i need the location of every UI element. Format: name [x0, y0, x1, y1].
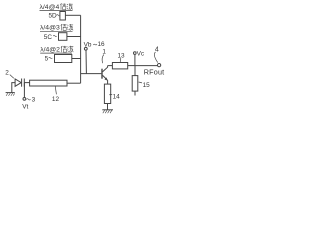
varactor diode 2: [15, 79, 24, 87]
svg-text:13: 13: [118, 52, 126, 59]
wire collector to choke 13: [108, 65, 113, 67]
svg-text:5D: 5D: [49, 13, 58, 20]
svg-text:RFout: RFout: [144, 68, 165, 77]
value label lambda/4 at 3rd harmonic (underlined): [40, 24, 73, 32]
svg-text:λ/4@4: λ/4@4: [40, 4, 60, 11]
stub 5C label: [44, 34, 57, 41]
wire choke 13 to supply node: [128, 65, 135, 67]
svg-text:Vc: Vc: [137, 50, 145, 57]
svg-text:5C: 5C: [44, 34, 53, 41]
bus wire (stubs common node): [80, 15, 82, 83]
wire line 12 to bus bottom: [67, 82, 81, 84]
svg-text:15: 15: [143, 82, 151, 89]
stub 5D label: [49, 13, 61, 20]
terminal Vc (collector supply): [134, 50, 145, 57]
wire stub 5 to bus: [72, 58, 81, 60]
svg-text:12: 12: [52, 96, 60, 103]
base wire (node to transistor base): [81, 73, 102, 75]
wire varactor cathode to line 12: [24, 82, 29, 84]
choke 13: [112, 63, 127, 69]
ground (varactor anode): [6, 93, 15, 96]
wire Vb to base node: [85, 50, 87, 73]
svg-text:2: 2: [5, 70, 9, 77]
svg-text:5: 5: [45, 55, 49, 62]
wire stub 5D to bus: [65, 14, 80, 16]
node 3 branch wire to Vt terminal: [23, 83, 25, 98]
label 12 with leader: [52, 86, 60, 103]
terminal Vb (base bias): [84, 42, 92, 51]
resistor 15: [132, 76, 138, 92]
label 3 with leader: [27, 97, 36, 104]
value label lambda/4 at 4th harmonic (underlined): [40, 3, 73, 11]
value label lambda/4 at 2nd harmonic (underlined): [40, 46, 73, 54]
resonator line 12 (half-wave strip): [30, 80, 67, 86]
svg-text:Vt: Vt: [22, 104, 28, 111]
svg-text:1: 1: [102, 49, 106, 56]
label 15 with leader: [139, 82, 151, 89]
stub 5C (quarter-wave line, 3rd harmonic): [59, 33, 67, 41]
stub 5 label: [45, 55, 53, 62]
wire ground to varactor anode: [12, 83, 15, 93]
wire supply node to RFout terminal: [135, 65, 158, 67]
wire resistor 14 to ground: [107, 104, 109, 110]
label 1 (transistor) with leader: [102, 49, 106, 64]
label 16 with leader: [93, 41, 105, 48]
svg-text:16: 16: [98, 41, 106, 48]
wire supply node to resistor 15: [134, 66, 136, 76]
label 2 (varactor) with leader: [5, 70, 14, 79]
svg-text:3: 3: [32, 97, 36, 104]
terminal Vt (tuning voltage): [23, 98, 26, 101]
stub 5D (quarter-wave line, 4th harmonic): [60, 12, 66, 21]
label 4 with leader: [154, 46, 158, 62]
transistor Q1 (NPN): [102, 66, 108, 85]
label 13 with leader: [118, 52, 126, 62]
svg-text:λ/4@3: λ/4@3: [40, 25, 60, 32]
svg-text:λ/4@2: λ/4@2: [40, 47, 60, 54]
svg-text:14: 14: [113, 93, 121, 100]
wire resistor 15 lower stub: [134, 91, 136, 95]
label 14 with leader: [109, 93, 120, 100]
resistor 14 (emitter): [104, 84, 110, 103]
ground (emitter resistor): [102, 110, 113, 113]
stub 5 (quarter-wave line, 2nd harmonic): [55, 55, 72, 63]
wire stub 5C to bus: [67, 36, 81, 38]
terminal RFout: [157, 63, 160, 66]
wire Vc to supply node: [134, 54, 136, 65]
